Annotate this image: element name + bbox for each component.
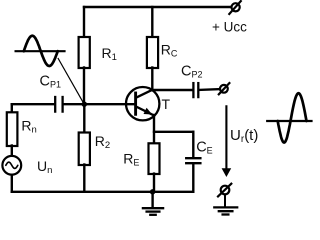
wire R1 bottom to base node	[83, 68, 85, 105]
svg-text:Ur(t): Ur(t)	[230, 127, 258, 145]
capacitor CP1	[55, 97, 62, 112]
output terminal (bottom)	[218, 184, 231, 197]
wire ground stub	[151, 192, 153, 207]
wire collector to CP2	[152, 89, 192, 91]
wire R1 branch top	[83, 7, 85, 38]
transistor base bar	[134, 93, 137, 114]
waveform output sine	[278, 93, 307, 142]
wire bottom ground rail	[12, 191, 194, 193]
transistor collector lead	[136, 90, 152, 98]
transistor Q1 circle	[126, 87, 159, 120]
wire RC bottom to collector node	[151, 68, 153, 91]
resistor Rn	[7, 112, 18, 146]
wire R2 bottom	[83, 165, 85, 192]
wire terminal to ground	[224, 194, 226, 206]
wire CP1 to base	[64, 103, 136, 105]
resistor R1	[79, 37, 90, 68]
wire CE top vertical	[192, 132, 194, 157]
wire CE branch horizontal	[154, 131, 193, 133]
ground (output)	[214, 207, 237, 214]
wire base from Rn corner to CP1	[12, 103, 54, 105]
wire Un bottom	[11, 175, 13, 192]
node base junction	[82, 102, 87, 107]
resistor R2	[79, 133, 90, 166]
waveform output sine axis	[267, 120, 311, 122]
svg-text:+ Ucc: + Ucc	[212, 20, 247, 35]
capacitor CE	[186, 158, 200, 163]
wire pointer line to base node	[58, 59, 84, 104]
wire emitter down	[153, 115, 155, 144]
arrow Ur(t)	[225, 106, 227, 169]
wire Rn to source Un	[11, 146, 13, 157]
ground (main)	[143, 208, 163, 215]
waveform input sine	[24, 36, 58, 66]
wire CE bottom	[192, 164, 194, 192]
wire R2 top	[83, 104, 85, 133]
waveform input sine axis	[16, 50, 65, 52]
wire top supply rail	[84, 6, 231, 8]
svg-text:T: T	[162, 96, 171, 112]
transistor emitter lead with arrow	[136, 107, 154, 116]
power terminal +Ucc	[229, 1, 241, 14]
output terminal (top)	[219, 83, 230, 94]
resistor RC	[147, 37, 158, 68]
wire RC branch top	[151, 7, 153, 38]
wire CP2 to output terminal	[199, 88, 220, 91]
node emitter-ground junction	[150, 189, 155, 194]
wire Rn top	[11, 104, 13, 113]
source Un	[2, 156, 21, 175]
wire RE bottom	[153, 174, 155, 192]
resistor RE	[149, 143, 160, 174]
capacitor CP2	[193, 83, 198, 97]
